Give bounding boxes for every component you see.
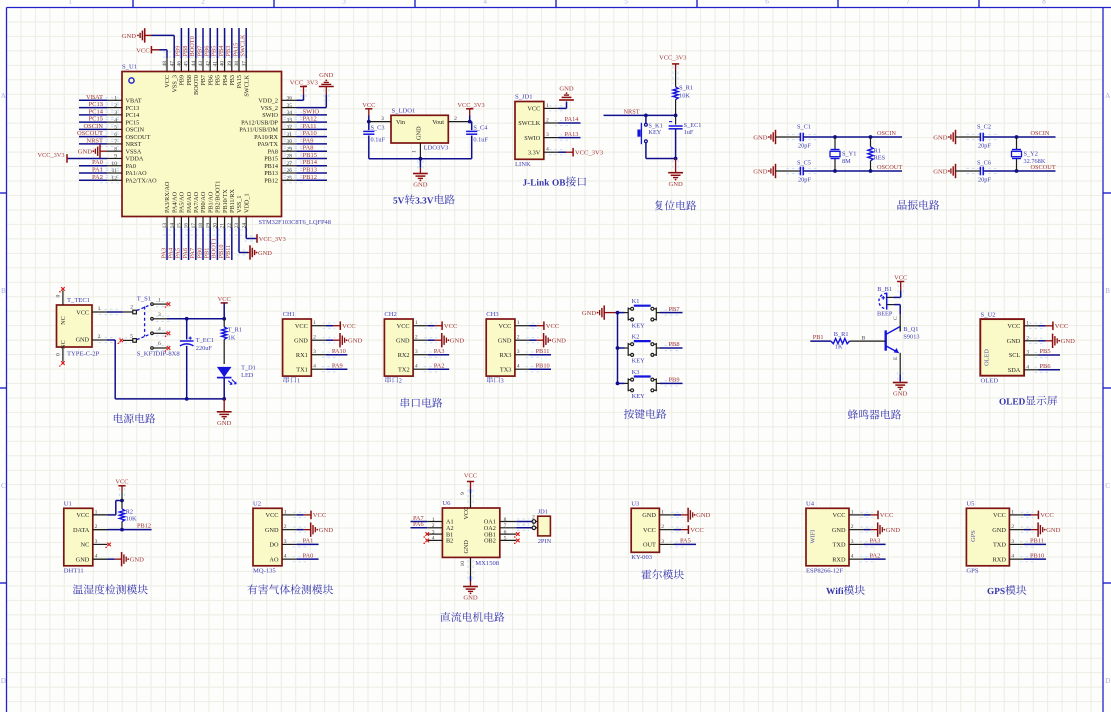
svg-text:PB10: PB10 <box>218 245 225 259</box>
svg-text:B: B <box>1105 287 1110 295</box>
svg-text:KEY: KEY <box>632 322 646 329</box>
svg-text:0: 0 <box>56 295 62 298</box>
svg-text:PB14: PB14 <box>303 159 318 166</box>
svg-text:VCC: VCC <box>76 512 89 519</box>
wire S_Y2 row1 to OSCIN <box>1015 135 1019 139</box>
svg-text:GND: GND <box>78 148 93 155</box>
connector U5 body <box>966 508 1009 566</box>
svg-text:KEY: KEY <box>632 393 646 400</box>
key switch K2 <box>618 347 625 349</box>
switch S1 dashed link <box>144 307 146 337</box>
svg-text:0.1uF: 0.1uF <box>473 137 488 144</box>
resistor S_R1 10K <box>673 87 678 100</box>
svg-text:DO: DO <box>269 542 279 549</box>
svg-text:PB8: PB8 <box>182 46 189 57</box>
gnd power port S_Y2 row2 <box>955 164 957 178</box>
crystal S_Y1 8M <box>834 137 836 150</box>
svg-text:LINK: LINK <box>515 161 531 168</box>
svg-text:OSCIN: OSCIN <box>83 123 103 130</box>
svg-text:VCC_3V3: VCC_3V3 <box>575 150 604 157</box>
svg-text:Vout: Vout <box>432 119 444 126</box>
svg-text:SWIO: SWIO <box>262 112 278 119</box>
svg-text:PA3/RX/AO: PA3/RX/AO <box>164 181 171 213</box>
title OLED display <box>999 398 1005 404</box>
svg-text:AO: AO <box>269 556 279 563</box>
svg-text:VCC: VCC <box>76 310 89 317</box>
svg-text:B2: B2 <box>446 538 453 545</box>
motor pin3 no-connect <box>425 532 429 536</box>
svg-text:K1: K1 <box>632 298 640 305</box>
U5 pin2 gnd <box>1021 526 1033 528</box>
svg-text:GND: GND <box>933 168 948 175</box>
motor pin7 wire to JD1 pin1 <box>517 524 529 526</box>
svg-text:SWCLK: SWCLK <box>240 34 247 56</box>
svg-text:PA15: PA15 <box>236 75 243 89</box>
svg-text:C: C <box>1105 482 1110 490</box>
svg-text:PA2/TX/AO: PA2/TX/AO <box>126 177 158 184</box>
svg-text:VCC: VCC <box>313 512 327 519</box>
svg-text:VCC: VCC <box>266 512 279 519</box>
svg-text:Vin: Vin <box>396 119 406 126</box>
wire vcc to R1 <box>672 66 674 84</box>
U2 pin1 vcc <box>293 511 306 513</box>
svg-text:PB4: PB4 <box>222 75 229 86</box>
svg-text:OSCIN: OSCIN <box>877 130 896 137</box>
svg-text:PB3: PB3 <box>229 75 236 86</box>
svg-text:PB13: PB13 <box>303 167 317 174</box>
svg-text:0: 0 <box>56 353 62 356</box>
svg-text:GND: GND <box>294 337 308 344</box>
svg-text:20pF: 20pF <box>798 176 811 183</box>
mcu pin 8 VSSA gnd <box>99 144 101 158</box>
CH3 pin1 vcc <box>526 322 539 324</box>
wire S1 pin3 to vcc node <box>167 318 224 320</box>
svg-text:GND: GND <box>130 556 145 563</box>
svg-text:R2: R2 <box>126 509 133 516</box>
connector U4 body <box>806 508 849 566</box>
svg-text:GND: GND <box>122 33 137 40</box>
svg-text:TX3: TX3 <box>500 366 512 373</box>
ldo pin 2 wire <box>448 121 469 123</box>
svg-text:TXD: TXD <box>993 542 1006 549</box>
svg-text:PC14: PC14 <box>89 108 104 115</box>
svg-text:VCC: VCC <box>464 473 477 480</box>
title wifi module <box>826 588 835 594</box>
crystal S_Y2 32.768K <box>1016 137 1018 150</box>
svg-text:GND: GND <box>1046 527 1061 534</box>
capacitor S_Y2 C row1 <box>956 136 981 138</box>
svg-text:7: 7 <box>906 0 910 5</box>
svg-text:DIP-8X8: DIP-8X8 <box>156 350 181 357</box>
svg-text:PB5: PB5 <box>215 75 222 86</box>
U4 pin2 gnd <box>860 526 873 528</box>
svg-text:S_C1: S_C1 <box>797 124 811 131</box>
svg-text:PA13: PA13 <box>565 131 579 138</box>
svg-text:C: C <box>1 482 6 490</box>
svg-text:GND: GND <box>552 338 567 345</box>
svg-text:B: B <box>862 335 866 341</box>
svg-text:GND: GND <box>696 512 711 519</box>
svg-text:PB4: PB4 <box>218 45 225 57</box>
svg-text:GPS: GPS <box>966 567 978 574</box>
gnd power port reset <box>672 160 674 172</box>
capacitor T_EC1 220uF <box>186 319 188 340</box>
mcu pin 36 VDD_2 wire to vcc_3v3 <box>297 99 304 101</box>
wire S_Y2 row2 to OSCOUT <box>1015 169 1019 173</box>
svg-text:PB0/AO: PB0/AO <box>200 191 207 213</box>
svg-text:GND: GND <box>76 556 90 563</box>
svg-text:T_D1: T_D1 <box>241 365 256 372</box>
svg-text:VDDA: VDDA <box>126 156 144 163</box>
wire S_Y1 row1 to OSCIN <box>833 135 837 139</box>
svg-text:RX2: RX2 <box>398 352 410 359</box>
svg-text:TXD: TXD <box>833 542 846 549</box>
svg-text:2PIN: 2PIN <box>538 538 552 545</box>
svg-text:PB5: PB5 <box>1040 348 1051 355</box>
svg-text:ESP8266-12F: ESP8266-12F <box>806 567 843 574</box>
jlink pin3 net PA13 <box>555 134 569 136</box>
svg-text:BEEP: BEEP <box>877 311 893 318</box>
wire S_Y1 row2 to OSCOUT <box>833 169 837 173</box>
svg-text:1K: 1K <box>835 344 843 351</box>
mcu pin 48 VCC wire from vcc <box>166 50 168 58</box>
svg-text:VSSA: VSSA <box>126 148 142 155</box>
svg-text:PA2: PA2 <box>434 362 445 369</box>
svg-text:OB2: OB2 <box>484 538 496 545</box>
svg-text:D: D <box>1 677 6 685</box>
tec1 top stub pin 0 no-connect <box>62 291 64 306</box>
svg-text:PA4: PA4 <box>168 247 175 258</box>
connector U2 body <box>253 508 282 566</box>
title serial circuit <box>401 398 410 408</box>
wire R1 to NRST node <box>675 100 677 116</box>
svg-text:VBAT: VBAT <box>126 98 142 105</box>
wire bottom rail ldo <box>369 158 472 160</box>
CH3 pin3 net PB11 <box>526 351 540 353</box>
connector CH2 body <box>384 319 413 376</box>
title crystal circuit <box>897 200 906 210</box>
svg-text:VCC: VCC <box>136 47 150 54</box>
tec1 pin 1 VCC wire <box>99 308 122 310</box>
svg-text:PB10: PB10 <box>536 362 550 369</box>
jlink pin1 wire to gnd <box>549 105 566 107</box>
svg-text:BOOT1: BOOT1 <box>211 238 218 258</box>
svg-text:VCC: VCC <box>1040 512 1054 519</box>
svg-text:GND: GND <box>893 391 908 398</box>
svg-text:GND: GND <box>668 181 683 188</box>
svg-text:K2: K2 <box>632 334 640 341</box>
svg-text:VCC_3V3: VCC_3V3 <box>290 79 319 86</box>
svg-text:PA6: PA6 <box>182 248 189 259</box>
svg-text:NRST: NRST <box>126 141 142 148</box>
svg-text:SWIO: SWIO <box>524 135 541 142</box>
svg-text:1: 1 <box>412 150 418 153</box>
svg-text:R1: R1 <box>874 147 881 154</box>
svg-text:VCC: VCC <box>690 527 704 534</box>
svg-text:U1: U1 <box>64 501 72 508</box>
svg-text:PB12: PB12 <box>264 177 278 184</box>
svg-text:CH2: CH2 <box>384 311 396 318</box>
wire vcc to buzzer <box>897 285 899 296</box>
svg-text:20pF: 20pF <box>978 143 991 150</box>
svg-text:PB6: PB6 <box>204 46 211 57</box>
svg-text:S_Y1: S_Y1 <box>842 151 856 158</box>
svg-text:NC: NC <box>81 542 90 549</box>
svg-text:VCC: VCC <box>1007 323 1020 330</box>
svg-text:SDA: SDA <box>1008 367 1021 374</box>
svg-text:PA0: PA0 <box>92 159 103 166</box>
svg-text:S_C4: S_C4 <box>473 124 488 131</box>
wire emitter to gnd <box>899 353 901 357</box>
svg-text:OSCOUT: OSCOUT <box>1031 164 1056 171</box>
svg-text:PB13: PB13 <box>264 170 278 177</box>
svg-text:PB15: PB15 <box>303 152 317 159</box>
svg-text:PA3: PA3 <box>870 538 881 545</box>
svg-text:PA0: PA0 <box>303 552 314 559</box>
svg-text:PA9: PA9 <box>332 362 343 369</box>
svg-text:GND: GND <box>1061 338 1076 345</box>
svg-text:S_U1: S_U1 <box>122 64 137 71</box>
svg-text:S_R1: S_R1 <box>679 84 693 91</box>
svg-text:PB11/RX: PB11/RX <box>229 189 236 213</box>
mcu pin 23 VSS_1 wire to gnd <box>238 228 240 253</box>
svg-text:VCC: VCC <box>498 323 511 330</box>
svg-text:VCC: VCC <box>362 102 375 109</box>
svg-text:10K: 10K <box>126 516 137 523</box>
svg-text:TYPE-C-2P: TYPE-C-2P <box>67 351 100 358</box>
tec1 pin 2 GND wire <box>99 336 113 338</box>
svg-text:VCC_3V3: VCC_3V3 <box>38 152 65 159</box>
mcu pin 47 VSS_3 wire from gnd <box>173 35 175 58</box>
U4 pin3 net PA3 <box>860 541 874 543</box>
svg-text:PA2: PA2 <box>870 552 881 559</box>
key K2 net PB8 <box>660 347 669 349</box>
svg-text:KEY: KEY <box>648 129 661 136</box>
title harmful gas module <box>247 584 257 594</box>
jd1 pin 2 <box>532 520 536 524</box>
jd1 pin 1 <box>532 526 536 530</box>
svg-text:SWCLK: SWCLK <box>243 74 250 96</box>
U4 pin1 vcc <box>860 511 873 513</box>
ldo LDO1 body <box>391 115 448 143</box>
svg-text:2: 2 <box>532 514 535 520</box>
svg-text:S_LDO1: S_LDO1 <box>392 108 416 115</box>
svg-text:GND: GND <box>416 126 423 140</box>
svg-text:PA1/AO: PA1/AO <box>126 170 148 177</box>
oled pin2 gnd <box>1029 337 1045 339</box>
svg-text:PA5/AO: PA5/AO <box>179 191 186 213</box>
svg-text:PB9: PB9 <box>175 46 182 57</box>
svg-text:PB1: PB1 <box>204 248 211 259</box>
svg-text:GND: GND <box>933 134 948 141</box>
svg-text:PC15: PC15 <box>89 116 103 123</box>
CH1 pin4 net PA9 <box>322 366 336 368</box>
svg-text:KY-003: KY-003 <box>631 554 653 561</box>
svg-text:PB11: PB11 <box>1030 538 1044 545</box>
ldo pin 3 wire <box>369 121 391 123</box>
mcu pin connection marker dashes <box>163 51 250 53</box>
svg-text:5: 5 <box>624 0 628 5</box>
net PB1 wire <box>810 340 831 342</box>
svg-text:1: 1 <box>68 0 72 5</box>
svg-text:PA2: PA2 <box>92 174 103 181</box>
title key circuit <box>624 409 634 419</box>
svg-text:220uF: 220uF <box>196 345 213 352</box>
net NRST wire <box>604 114 676 116</box>
svg-text:PB7: PB7 <box>196 46 203 57</box>
svg-text:VSS_1: VSS_1 <box>236 195 243 213</box>
svg-text:MQ-135: MQ-135 <box>253 567 276 574</box>
svg-text:GND: GND <box>450 338 465 345</box>
svg-text:PA1: PA1 <box>303 538 314 545</box>
title reset circuit <box>655 200 663 210</box>
svg-text:VCC: VCC <box>643 527 656 534</box>
dht11 pin2 DATA net PB12 <box>120 528 124 532</box>
svg-text:20pF: 20pF <box>978 176 991 183</box>
wire led to rail <box>223 378 225 399</box>
svg-text:OLED: OLED <box>981 378 999 385</box>
svg-text:GND: GND <box>1007 338 1021 345</box>
svg-text:OLED: OLED <box>984 349 991 366</box>
svg-text:MX1508: MX1508 <box>475 560 500 567</box>
svg-text:PA7/AO: PA7/AO <box>193 191 200 213</box>
svg-text:B_Q1: B_Q1 <box>903 326 918 333</box>
U5 pin4 net PB10 <box>1020 556 1034 558</box>
svg-text:D: D <box>1105 677 1110 685</box>
title 5V to 3.3V <box>393 197 397 203</box>
svg-text:8: 8 <box>1042 0 1046 5</box>
svg-text:PA6/AO: PA6/AO <box>186 191 193 213</box>
oled pin1 vcc <box>1029 322 1045 324</box>
svg-text:PC13: PC13 <box>89 101 103 108</box>
svg-text:RES: RES <box>874 154 886 161</box>
svg-text:K3: K3 <box>632 369 640 376</box>
svg-text:U6: U6 <box>442 500 451 507</box>
jlink pin2 net PA14 <box>555 119 569 121</box>
svg-text:VCC: VCC <box>833 512 846 519</box>
U3 pin3 net PA5 <box>670 541 684 543</box>
wire R1 to base <box>850 340 886 342</box>
svg-text:VCC: VCC <box>342 323 356 330</box>
motor pin1 net PA7 <box>411 521 428 523</box>
svg-text:VCC: VCC <box>527 106 540 113</box>
svg-text:VSS_3: VSS_3 <box>171 75 178 93</box>
svg-text:S_Y2: S_Y2 <box>1024 151 1038 158</box>
svg-text:6: 6 <box>158 341 161 347</box>
svg-text:PB6: PB6 <box>1040 363 1051 370</box>
svg-text:S_C6: S_C6 <box>977 160 991 167</box>
svg-text:PB1: PB1 <box>813 334 824 341</box>
svg-text:PA7: PA7 <box>189 248 196 259</box>
svg-text:PA3: PA3 <box>160 248 167 259</box>
svg-text:OUT: OUT <box>643 542 656 549</box>
svg-text:DHT11: DHT11 <box>64 567 84 574</box>
svg-text:BOOT0: BOOT0 <box>193 75 200 95</box>
title hall module <box>641 570 651 580</box>
CH3 value label <box>487 376 493 383</box>
svg-text:PA10: PA10 <box>303 130 317 137</box>
U2 pin2 gnd <box>293 526 306 528</box>
svg-text:VCC: VCC <box>463 507 470 520</box>
svg-text:PA4/AO: PA4/AO <box>171 191 178 213</box>
oled pin3 net PB5 <box>1035 351 1049 353</box>
svg-text:2: 2 <box>98 334 101 340</box>
CH1 pin2 gnd <box>323 337 336 339</box>
svg-text:PA8: PA8 <box>303 145 314 152</box>
gnd power port S_Y1 row1 <box>775 130 777 144</box>
svg-text:VDD_1: VDD_1 <box>243 193 250 213</box>
svg-text:PA0: PA0 <box>126 163 136 170</box>
title temperature humidity module <box>73 585 83 595</box>
svg-text:3: 3 <box>381 116 384 122</box>
svg-text:OSCOUT: OSCOUT <box>126 134 151 141</box>
wire power bottom rail <box>115 398 224 400</box>
U5 pin1 vcc <box>1021 511 1033 513</box>
svg-text:A: A <box>1 92 7 100</box>
svg-text:4: 4 <box>483 0 487 5</box>
svg-text:S_C3: S_C3 <box>371 124 385 131</box>
U2 pin4 net PA0 <box>293 556 307 558</box>
motor pin4 no-connect <box>425 539 429 543</box>
svg-text:VCC_3V3: VCC_3V3 <box>457 102 484 109</box>
svg-text:CH1: CH1 <box>283 311 295 318</box>
svg-text:2: 2 <box>130 305 133 311</box>
keys bus vertical wire <box>616 311 620 315</box>
capacitor S_EC1 1uF <box>675 115 677 124</box>
title dc motor circuit <box>441 612 451 622</box>
svg-text:GND: GND <box>258 250 272 257</box>
svg-text:PB3: PB3 <box>225 46 232 57</box>
svg-text:3: 3 <box>342 0 346 5</box>
svg-text:LDO3V3: LDO3V3 <box>424 145 450 152</box>
title J-Link OB <box>523 179 527 185</box>
motor pin5 no-connect <box>516 539 520 543</box>
svg-text:2: 2 <box>454 116 457 122</box>
svg-text:VCC_3V3: VCC_3V3 <box>259 236 286 243</box>
svg-text:RXD: RXD <box>993 556 1007 563</box>
svg-text:GND: GND <box>992 527 1006 534</box>
svg-text:T_R1: T_R1 <box>228 326 242 333</box>
svg-text:PB11: PB11 <box>536 348 550 355</box>
key K3 net PB9 <box>660 382 669 384</box>
svg-text:PB11: PB11 <box>225 245 232 259</box>
svg-text:T_S1: T_S1 <box>137 296 151 303</box>
oled pin4 net PB6 <box>1035 366 1049 368</box>
svg-text:S_JD1: S_JD1 <box>515 94 533 101</box>
U1 pin3 no-connect <box>107 543 111 547</box>
key switch K3 <box>618 382 625 384</box>
svg-text:PB12: PB12 <box>303 174 317 181</box>
svg-text:GND: GND <box>886 527 901 534</box>
dht11 pin4 gnd <box>93 558 108 560</box>
svg-text:PB8: PB8 <box>186 75 193 86</box>
motor pin10 GND bottom <box>467 560 469 580</box>
svg-text:VDD_2: VDD_2 <box>258 98 278 105</box>
connector CH3 body <box>486 319 515 376</box>
gnd power port S_Y1 row2 <box>775 164 777 178</box>
svg-text:9: 9 <box>460 492 466 495</box>
mcu pin 24 VDD_1 wire to vcc_3v3 <box>245 228 247 239</box>
svg-text:1: 1 <box>532 521 535 527</box>
svg-text:STM32F103C8T6_LQFP48: STM32F103C8T6_LQFP48 <box>259 219 331 226</box>
capacitor S_Y2 C row2 <box>956 170 981 172</box>
U5 pin3 net PB11 <box>1020 541 1034 543</box>
svg-text:TX1: TX1 <box>296 366 308 373</box>
svg-text:8M: 8M <box>842 158 851 165</box>
svg-text:S_KFT: S_KFT <box>137 350 156 357</box>
svg-text:PB5: PB5 <box>211 46 218 57</box>
svg-text:PB15: PB15 <box>264 156 278 163</box>
